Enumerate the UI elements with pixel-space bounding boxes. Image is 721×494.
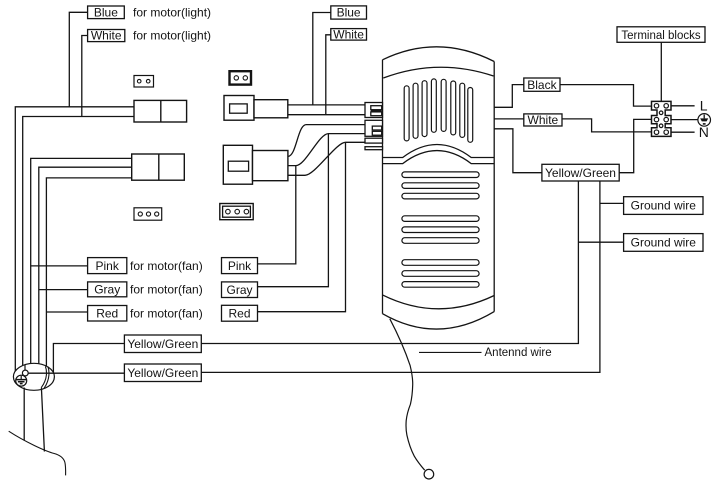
- wire bundle line 3 (to fan connector pin 1): [31, 158, 132, 366]
- svg-text:for motor(fan): for motor(fan): [130, 306, 203, 320]
- label Terminal blocks: [617, 27, 705, 43]
- hanger ball: [13, 363, 54, 390]
- pin face 2-hole bold (male light): [230, 71, 252, 84]
- wire terminal blocks pointer: [660, 42, 662, 101]
- wire Blue tap: [69, 12, 87, 107]
- wire Gray tap: [39, 289, 88, 291]
- label White 2: [331, 28, 367, 42]
- wire into canopy terminal: [24, 365, 26, 371]
- svg-text:Antennd wire: Antennd wire: [485, 347, 552, 359]
- label Yellow/Green bottom 2: [124, 364, 201, 382]
- wire Yellow/Green canopy 1: [53, 344, 124, 375]
- label White right: [524, 113, 562, 127]
- connector female light: [134, 100, 187, 122]
- svg-text:Black: Black: [527, 78, 557, 92]
- wire ground tap 2: [201, 181, 623, 372]
- wire terminal earth lead: [671, 119, 698, 121]
- wire fan lead 1 (s-curve): [288, 125, 366, 157]
- svg-text:Yellow/Green: Yellow/Green: [127, 366, 198, 380]
- svg-text:White: White: [333, 28, 364, 42]
- wire bundle line 5 (to fan connector pin 3): [46, 178, 131, 368]
- connector female fan: [132, 154, 185, 180]
- svg-text:Pink: Pink: [96, 259, 120, 273]
- svg-text:L: L: [700, 97, 708, 113]
- svg-text:for motor(fan): for motor(fan): [130, 283, 203, 297]
- label Ground wire 1: [624, 197, 703, 215]
- wire terminal N lead: [671, 131, 695, 133]
- hanger ball socket curve: [41, 366, 49, 388]
- pin face 2-hole (female light): [134, 76, 154, 88]
- svg-text:White: White: [91, 29, 122, 43]
- wire Yellow/Green to terminal earth: [494, 119, 651, 172]
- wire bundle line 2 (to light connector pin 2): [23, 117, 134, 369]
- label Blue 2: [331, 6, 367, 20]
- wire Blue tap 2: [313, 13, 331, 105]
- wire light lead 1: [288, 104, 365, 106]
- wire Red tap 2: [258, 142, 346, 311]
- label White (light): [88, 29, 125, 43]
- wire light lead 2: [288, 114, 365, 116]
- svg-text:Red: Red: [96, 306, 118, 320]
- ground symbol in hanger ball: [16, 375, 27, 386]
- svg-text:N: N: [699, 124, 709, 140]
- svg-text:for motor(light): for motor(light): [133, 29, 211, 43]
- pin face 3-hole bold (male fan): [220, 204, 253, 220]
- wire Gray tap 2: [258, 134, 329, 287]
- wire terminal L lead: [671, 105, 695, 107]
- pin face 3-hole (female fan): [134, 208, 162, 220]
- terminal block: [652, 101, 672, 136]
- canopy wire terminal circle: [22, 370, 28, 376]
- svg-text:Terminal blocks: Terminal blocks: [621, 30, 700, 42]
- motor terminal tab: [365, 103, 383, 150]
- svg-text:Gray: Gray: [94, 283, 120, 297]
- wire Yellow/Green canopy 2: [28, 372, 124, 374]
- antenna pointer line: [419, 351, 482, 353]
- svg-text:Pink: Pink: [228, 259, 252, 273]
- ceiling outline curve: [9, 431, 66, 475]
- label Yellow/Green right: [542, 164, 619, 181]
- svg-text:Ground wire: Ground wire: [631, 199, 697, 213]
- wire White to terminal N: [494, 119, 651, 132]
- connector male fan: [223, 145, 288, 184]
- label Blue (light): [88, 5, 125, 19]
- connector male light: [224, 96, 288, 121]
- label Red (left): [88, 306, 127, 322]
- label Gray (left): [88, 282, 127, 297]
- wire fan lead 3 (s-curve): [288, 142, 366, 175]
- svg-text:Yellow/Green: Yellow/Green: [127, 337, 198, 351]
- wire Pink tap 2: [258, 166, 296, 264]
- earth symbol circle: [698, 114, 711, 127]
- wire White tap: [82, 36, 88, 117]
- wire Pink tap: [31, 265, 88, 267]
- label Pink 2: [222, 258, 258, 274]
- label Gray 2: [222, 282, 258, 298]
- svg-text:for motor(light): for motor(light): [133, 6, 211, 20]
- antenna wire: [390, 319, 425, 470]
- motor lower vent bars: [402, 172, 479, 287]
- label Ground wire 2: [624, 234, 703, 252]
- svg-text:Gray: Gray: [226, 283, 252, 297]
- wire White tap 2: [326, 35, 331, 115]
- svg-text:Blue: Blue: [337, 6, 361, 20]
- svg-text:Red: Red: [228, 306, 250, 320]
- svg-text:Blue: Blue: [94, 5, 118, 19]
- motor top vent slots: [404, 79, 472, 142]
- wire bundle line 1 (to light connector pin 1): [15, 107, 134, 372]
- svg-text:Yellow/Green: Yellow/Green: [545, 166, 616, 180]
- wire Red tap: [46, 311, 87, 313]
- downrod: [24, 388, 44, 452]
- motor body: [383, 47, 495, 329]
- label Yellow/Green bottom 1: [124, 335, 201, 353]
- label Pink (left): [88, 258, 127, 274]
- svg-text:White: White: [528, 113, 559, 127]
- svg-text:Ground wire: Ground wire: [631, 236, 697, 250]
- wire Black to terminal L: [494, 85, 651, 108]
- label Red 2: [222, 305, 258, 321]
- svg-text:for motor(fan): for motor(fan): [130, 259, 203, 273]
- wire bundle line 4 (to fan connector pin 2): [39, 167, 132, 366]
- wire ground tap 1: [201, 181, 623, 344]
- wire fan lead 2 (s-curve): [288, 134, 366, 166]
- label Black: [524, 78, 560, 92]
- antenna pull ring: [424, 469, 434, 479]
